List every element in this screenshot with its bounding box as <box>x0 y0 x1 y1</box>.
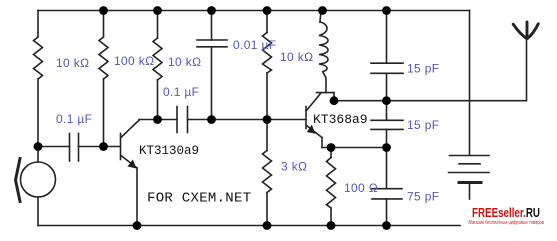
node bottom Q1 emitter <box>133 221 142 230</box>
resistor R6 100 <box>327 148 336 226</box>
wire oscillator to antenna y=100.7 <box>334 39 527 101</box>
logo FREEseller.RU <box>461 200 557 230</box>
resistor R5 3k <box>263 120 272 226</box>
node bottom C6 <box>382 221 391 230</box>
microphone M1 <box>16 147 56 226</box>
node C5 C6 <box>382 143 391 152</box>
svg-text:75 pF: 75 pF <box>407 190 439 204</box>
wire C2 to Q2 base <box>188 119 307 121</box>
wire stage1 collector rail y=119.5 <box>139 119 177 121</box>
capacitor C4 15pF <box>371 11 403 101</box>
svg-text:0.1 µF: 0.1 µF <box>56 112 92 126</box>
node top R2 <box>99 6 108 15</box>
wire battery vertical from top rail <box>469 11 471 156</box>
svg-text:KT3130a9: KT3130a9 <box>139 144 199 158</box>
svg-text:FREEseller.RU: FREEseller.RU <box>472 205 540 220</box>
svg-text:3 kΩ: 3 kΩ <box>281 160 307 174</box>
node mic coupling <box>34 142 43 151</box>
node bottom R5 <box>263 221 272 230</box>
svg-text:0.01 µF: 0.01 µF <box>233 38 276 52</box>
node Q2 collector <box>330 96 339 105</box>
svg-text:10 kΩ: 10 kΩ <box>280 50 313 64</box>
node emitter R6 <box>327 143 336 152</box>
transistor Q2 KT368a9 <box>306 93 334 148</box>
node top R3 <box>153 6 162 15</box>
svg-text:FOR CXEM.NET: FOR CXEM.NET <box>147 191 251 207</box>
node bottom R6 <box>327 221 336 230</box>
svg-text:10 kΩ: 10 kΩ <box>168 55 201 69</box>
svg-text:0.1 µF: 0.1 µF <box>163 85 199 99</box>
svg-text:10 kΩ: 10 kΩ <box>56 56 89 70</box>
node tank C4 C5 <box>382 96 391 105</box>
resistor R3 10k <box>153 11 162 120</box>
node top L1 <box>318 6 327 15</box>
wire top rail <box>38 10 470 12</box>
battery GB1 <box>449 156 490 200</box>
svg-text:Магазин бесплатных цифровых то: Магазин бесплатных цифровых товаров <box>469 220 545 226</box>
svg-text:15 pF: 15 pF <box>407 62 439 76</box>
svg-text:100 Ω: 100 Ω <box>344 181 378 195</box>
node top R4 <box>263 6 272 15</box>
wire bottom rail <box>38 225 460 227</box>
node top C4 <box>382 6 391 15</box>
node C3 bottom <box>207 115 216 124</box>
resistor R2 100k <box>99 11 108 147</box>
transistor Q1 KT3130a9 <box>121 121 140 226</box>
capacitor C5 15pF <box>371 101 403 148</box>
node Q2 base R4 R5 <box>263 115 272 124</box>
capacitor C2 0.1uF <box>177 107 188 133</box>
resistor R4 10k <box>263 11 272 120</box>
svg-text:15 pF: 15 pF <box>407 118 439 132</box>
resistor R1 10k <box>34 11 43 147</box>
antenna W1 <box>513 22 538 39</box>
wire emitter rail y=147.5 <box>322 147 387 149</box>
svg-text:100 kΩ: 100 kΩ <box>114 54 154 68</box>
node top C3 <box>207 6 216 15</box>
capacitor C6 75pF <box>372 148 402 226</box>
inductor L1 <box>319 11 328 93</box>
capacitor C1 0.1uF <box>38 134 120 162</box>
capacitor C3 0.01uF <box>197 11 227 120</box>
node Q1 base <box>99 142 108 151</box>
node collector R3 <box>153 115 162 124</box>
node junction dots <box>34 6 391 230</box>
svg-text:KT368a9: KT368a9 <box>313 112 368 127</box>
